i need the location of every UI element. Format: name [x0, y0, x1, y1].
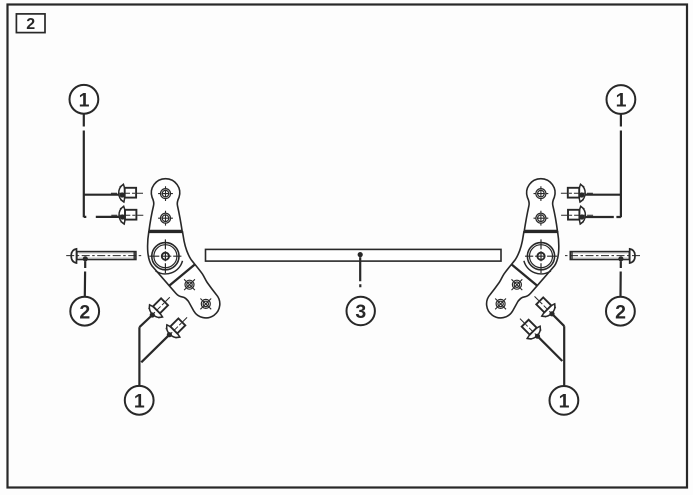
leader from long bolt left to circle 2 — [84, 261, 87, 296]
long bolt right — [563, 249, 640, 263]
callout circle 1 bottom left — [125, 386, 154, 415]
right bracket — [487, 179, 559, 318]
leader horizontal to upper left bolt — [84, 194, 121, 196]
left bracket — [148, 179, 220, 318]
leader diagonal from bolt A right — [552, 314, 564, 326]
leader horizontal to lower right bolt — [582, 216, 621, 218]
lower left flange bolt — [111, 206, 143, 224]
svg-text:1: 1 — [79, 89, 90, 111]
figure label box — [16, 14, 45, 33]
leader vertical from circle 1 top right — [620, 115, 622, 218]
long bolt left — [66, 249, 143, 263]
svg-text:2: 2 — [79, 301, 90, 323]
leader horizontal to upper right bolt — [583, 194, 621, 196]
callout circle 1 top right — [607, 85, 636, 114]
upper left flange bolt — [111, 184, 143, 202]
leader diagonal from bolt B left — [141, 335, 169, 363]
svg-text:2: 2 — [26, 16, 35, 33]
svg-text:1: 1 — [134, 390, 145, 412]
leader dot upper right bolt — [579, 192, 584, 197]
leader vertical to circle 1 bottom right — [563, 326, 565, 386]
lower left bolt B (diagonal) — [158, 311, 193, 346]
leader dot lower right bolt A — [549, 311, 554, 316]
callout circle 1 bottom right — [550, 386, 579, 415]
leader diagonal from bolt B right — [538, 336, 563, 361]
leader dot long bolt right — [618, 256, 623, 261]
callout circle 2 left — [70, 297, 99, 326]
leader vertical from circle 1 top left — [83, 114, 85, 217]
svg-text:1: 1 — [616, 90, 627, 112]
lower right flange bolt — [561, 206, 593, 224]
leader dot long bolt left — [83, 256, 88, 261]
leader diagonal from bolt A left — [139, 315, 152, 327]
leader dot lower left bolt — [120, 214, 125, 219]
callout circle 1 top left — [70, 85, 99, 114]
leader from bar to circle 3 — [359, 257, 361, 287]
callout circle 2 right — [606, 297, 635, 326]
svg-text:2: 2 — [615, 301, 626, 323]
lower right bolt B (diagonal) — [513, 312, 548, 347]
leader dot lower right bolt B — [535, 334, 540, 339]
leader dot upper left bolt — [120, 192, 125, 197]
leader dot on bar — [358, 252, 363, 257]
svg-text:3: 3 — [355, 301, 366, 323]
leader dot lower left bolt B — [167, 332, 172, 337]
leader vertical to circle 1 bottom left — [138, 327, 140, 386]
lower left bolt A (diagonal) — [141, 291, 176, 326]
upper right flange bolt — [561, 184, 593, 202]
stabilizer bar — [206, 249, 502, 261]
svg-text:1: 1 — [559, 391, 570, 413]
leader dot lower right bolt — [579, 214, 584, 219]
leader from long bolt right to circle 2 — [619, 261, 621, 296]
lower right bolt A (diagonal) — [528, 290, 563, 325]
callout circle 3 — [347, 297, 375, 325]
leader horizontal to lower left bolt — [84, 216, 121, 218]
leader dot lower left bolt A — [150, 312, 155, 317]
